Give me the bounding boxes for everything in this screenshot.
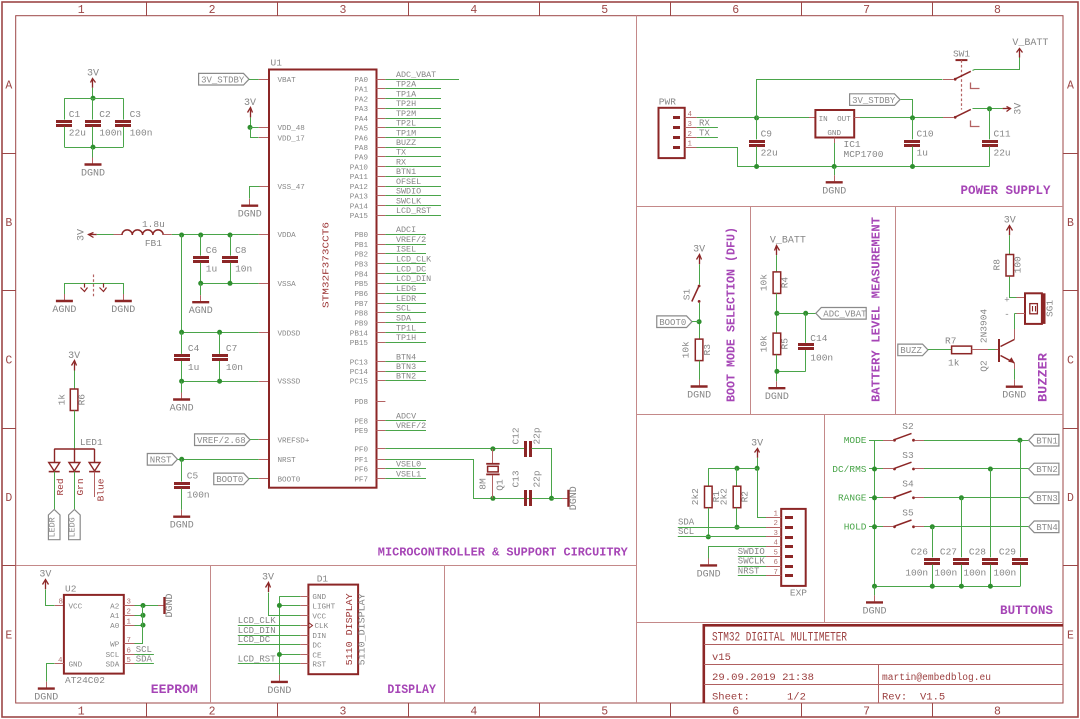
wire NRST to pin <box>178 459 259 461</box>
wire GND row (display) <box>279 596 300 598</box>
svg-text:POWER SUPPLY: POWER SUPPLY <box>961 184 1051 198</box>
ground DGND (net tie right) <box>123 294 125 300</box>
wire net ADC_VBAT <box>385 79 459 81</box>
svg-text:C14: C14 <box>810 333 827 344</box>
svg-text:VCC: VCC <box>69 603 83 611</box>
svg-text:3V: 3V <box>751 438 763 449</box>
node NRST/C5 <box>179 457 184 462</box>
wire C12 to right branch <box>532 449 552 499</box>
svg-text:100n: 100n <box>934 568 957 579</box>
wire net TP2H <box>385 108 441 110</box>
capacitor C4 <box>174 354 190 357</box>
svg-text:C11: C11 <box>994 128 1011 139</box>
svg-text:SCL: SCL <box>396 304 411 314</box>
svg-text:C6: C6 <box>206 245 218 256</box>
ground DGND (boot) <box>699 380 701 386</box>
wire R7 to Q2 base <box>972 349 988 351</box>
wire net BTN1 <box>385 176 441 178</box>
svg-text:1: 1 <box>688 141 693 149</box>
svg-text:CLK: CLK <box>315 623 329 631</box>
svg-text:C: C <box>5 354 12 367</box>
svg-text:10k: 10k <box>758 274 769 291</box>
svg-text:TP2H: TP2H <box>396 99 416 109</box>
svg-text:BTN1: BTN1 <box>1036 436 1058 446</box>
pin U2 GND stub <box>55 663 64 665</box>
svg-text:VSEL0: VSEL0 <box>396 460 421 470</box>
node R2/SDA <box>735 525 740 530</box>
wire 3V to VCC <box>46 590 55 606</box>
svg-text:ADCI: ADCI <box>396 225 416 235</box>
svg-text:DC: DC <box>312 642 322 650</box>
svg-text:A0: A0 <box>110 623 120 631</box>
svg-text:Q2: Q2 <box>978 360 989 372</box>
svg-text:SDA: SDA <box>396 313 412 323</box>
ground DGND (display) <box>279 675 281 681</box>
node pullup bus mid <box>735 466 740 471</box>
svg-text:PA13: PA13 <box>350 194 369 202</box>
wire net BTN2 <box>385 380 426 382</box>
node BOOT0 <box>697 319 702 324</box>
svg-text:3: 3 <box>127 599 131 607</box>
svg-text:29.09.2019 21:38: 29.09.2019 21:38 <box>712 672 814 684</box>
wire net TP2L <box>385 127 441 129</box>
svg-text:100: 100 <box>1013 256 1024 273</box>
svg-text:SCL: SCL <box>136 645 152 655</box>
svg-text:2: 2 <box>688 131 692 139</box>
node VSSSD B <box>217 379 222 384</box>
wire net SWDIO <box>385 195 441 197</box>
svg-text:SCL: SCL <box>106 652 120 660</box>
svg-text:A1: A1 <box>110 613 120 621</box>
wire net ADCV <box>385 420 426 422</box>
regulator IC1 MCP1700 <box>815 110 854 138</box>
node rail GND <box>832 164 837 169</box>
svg-text:A: A <box>1067 79 1074 92</box>
svg-text:1: 1 <box>774 510 779 518</box>
wire NRST row <box>738 575 766 577</box>
ground DGND (buzzer) <box>1014 380 1016 386</box>
svg-text:PB1: PB1 <box>354 242 368 250</box>
svg-text:BOOT0: BOOT0 <box>216 475 243 485</box>
svg-text:3: 3 <box>339 706 346 719</box>
node BTN3 tap <box>959 495 964 500</box>
wire R6 to LED1 <box>74 411 76 450</box>
svg-text:D: D <box>1067 492 1074 505</box>
svg-text:5: 5 <box>774 549 778 557</box>
svg-text:PB4: PB4 <box>354 271 368 279</box>
svg-text:GND: GND <box>69 662 83 670</box>
svg-text:AGND: AGND <box>189 306 213 317</box>
frame column ticks <box>146 2 148 16</box>
svg-text:8: 8 <box>994 706 1001 719</box>
svg-text:SWCLK: SWCLK <box>396 196 422 206</box>
svg-text:S3: S3 <box>902 450 914 461</box>
svg-text:IN: IN <box>819 116 828 124</box>
svg-text:PF1: PF1 <box>354 457 368 465</box>
svg-text:DGND: DGND <box>170 521 194 532</box>
wire R5 bottom to ground node <box>776 355 778 382</box>
wire PF1 to crystal bottom <box>381 460 552 499</box>
switch S2 <box>883 440 893 442</box>
section divider display right <box>444 566 446 704</box>
svg-text:PA14: PA14 <box>350 203 369 211</box>
svg-text:ISEL: ISEL <box>396 245 416 255</box>
svg-text:S5: S5 <box>902 508 914 519</box>
op-amp U2 AT24C02 body <box>64 595 124 674</box>
wire C1 top lead <box>64 98 66 119</box>
wire C6 top lead <box>200 235 202 256</box>
node BTN1 tap <box>1017 438 1022 443</box>
svg-text:PD8: PD8 <box>354 399 368 407</box>
wire A1 row <box>135 615 144 617</box>
node bus top <box>91 96 96 101</box>
capacitor C26 <box>924 558 940 561</box>
wire C9 top lead <box>756 118 758 139</box>
svg-text:TX: TX <box>699 128 710 138</box>
svg-text:PA3: PA3 <box>354 106 368 114</box>
svg-text:LCD_DC: LCD_DC <box>396 264 426 274</box>
svg-text:2k2: 2k2 <box>690 488 701 505</box>
wire IC1 OUT to switch <box>854 117 860 119</box>
ground DGND power supply <box>834 175 836 181</box>
svg-text:OUT: OUT <box>837 116 851 124</box>
power V_BATT (battery divider) <box>776 247 778 255</box>
wire bottom cap bus <box>64 147 123 149</box>
wire SCL (eeprom) <box>135 654 154 656</box>
svg-text:Red: Red <box>55 478 66 495</box>
svg-text:PA8: PA8 <box>354 145 368 153</box>
svg-text:1: 1 <box>127 618 132 626</box>
svg-text:LED1: LED1 <box>80 437 103 448</box>
net tie dashed divider <box>93 275 95 297</box>
wire VDDSD row <box>182 332 259 334</box>
svg-text:C2: C2 <box>99 109 111 120</box>
node VDDA bus B <box>198 233 203 238</box>
svg-text:10k: 10k <box>681 341 692 358</box>
ground DGND (eeprom left) <box>46 682 48 688</box>
power 3V (boot) <box>699 256 701 264</box>
wire 3V to cap bus <box>92 88 94 98</box>
wire TX <box>697 137 718 139</box>
capacitor C14 <box>798 343 814 346</box>
node BTN4 tap <box>930 524 935 529</box>
wire C2 bottom lead <box>92 127 94 147</box>
node bus bottom <box>91 145 96 150</box>
wire rail to DGND <box>834 167 836 176</box>
node rail RANGE <box>872 495 877 500</box>
wire IC1 GND to rail <box>834 143 836 167</box>
ground AGND under C4 <box>181 393 183 399</box>
wire net VSEL1 <box>385 478 426 480</box>
svg-text:3V: 3V <box>77 229 88 241</box>
node VDDA bus A <box>179 233 184 238</box>
wire net LCD_CLK <box>385 263 426 265</box>
svg-text:MICROCONTROLLER & SUPPORT CIRC: MICROCONTROLLER & SUPPORT CIRCUITRY <box>378 547 628 560</box>
svg-text:PF0: PF0 <box>354 447 368 455</box>
svg-text:5: 5 <box>127 657 131 665</box>
svg-text:5110 DISPLAY: 5110 DISPLAY <box>344 593 355 665</box>
svg-text:GND: GND <box>827 130 841 138</box>
wire SCL row <box>678 536 766 538</box>
svg-text:2: 2 <box>127 609 131 617</box>
svg-text:-: - <box>1004 310 1009 320</box>
wire C11 bottom lead <box>989 147 991 167</box>
svg-text:BTN4: BTN4 <box>396 353 416 363</box>
section divider micro bottom <box>16 565 636 567</box>
svg-text:DGND: DGND <box>267 686 291 697</box>
wire RANGE row left <box>869 497 883 499</box>
section divider boot/battery <box>750 206 752 414</box>
svg-text:22p: 22p <box>532 427 543 444</box>
svg-text:E: E <box>5 629 12 642</box>
wire net RX <box>385 166 441 168</box>
wire pullup bus <box>708 468 757 470</box>
wire net LCD_DIN <box>385 283 426 285</box>
node rail HOLD <box>872 524 877 529</box>
wire R4 to node <box>776 293 778 333</box>
svg-text:6: 6 <box>774 559 778 567</box>
svg-text:S4: S4 <box>902 479 914 490</box>
svg-text:100n: 100n <box>130 128 153 139</box>
section divider boot row bottom <box>636 414 1063 416</box>
node VSSA B <box>228 281 233 286</box>
svg-text:DC/RMS: DC/RMS <box>832 464 867 475</box>
wire HOLD row left <box>869 526 883 528</box>
ground AGND (net tie left) <box>64 294 66 300</box>
wire R2 bottom to SDA row <box>736 508 738 528</box>
svg-text:AGND: AGND <box>52 305 76 316</box>
resistor R4 <box>773 272 781 294</box>
wire net BTN3 <box>385 371 426 373</box>
wire LED red cathode <box>54 472 56 510</box>
svg-text:BOOT MODE SELECTION (DFU): BOOT MODE SELECTION (DFU) <box>726 227 739 402</box>
svg-text:BTN2: BTN2 <box>1036 465 1058 475</box>
global label BOOT0 (boot section) <box>657 316 692 328</box>
global label BTN2 <box>1029 463 1059 475</box>
ground DGND under C5 <box>181 510 183 516</box>
wire VSSA row <box>201 283 259 285</box>
wire rail to DGND <box>874 586 876 595</box>
svg-text:VREFSD+: VREFSD+ <box>278 438 310 446</box>
svg-text:PE9: PE9 <box>354 428 368 436</box>
svg-text:BTN4: BTN4 <box>1036 523 1058 533</box>
svg-text:BUZZER: BUZZER <box>1037 352 1051 402</box>
svg-text:4: 4 <box>58 657 63 665</box>
ground DGND (battery) <box>776 381 778 387</box>
svg-text:C12: C12 <box>511 427 522 444</box>
power 3V output (rotated right) <box>1003 108 1011 110</box>
ground DGND (rotated) at crystal <box>562 498 568 500</box>
wire C5 top lead <box>181 459 183 481</box>
svg-text:100n: 100n <box>810 353 833 364</box>
power 3V (buzzer) <box>1009 227 1011 235</box>
svg-text:PB5: PB5 <box>354 281 368 289</box>
net tie arrow 1 <box>84 283 86 287</box>
wire C1 bottom lead <box>64 127 66 147</box>
wire PF0 to crystal <box>385 448 524 450</box>
resistor R5 <box>773 333 781 355</box>
resistor R3 <box>695 339 703 361</box>
svg-text:3V: 3V <box>1013 103 1024 115</box>
svg-text:RX: RX <box>396 157 406 167</box>
svg-text:SWCLK: SWCLK <box>738 557 766 567</box>
pin LED blue cathode stub <box>94 472 96 497</box>
wire net TP1A <box>385 98 441 100</box>
wire C27 column <box>961 498 963 558</box>
node ground (battery) <box>774 369 779 374</box>
svg-text:LEDG: LEDG <box>396 284 416 294</box>
svg-text:100n: 100n <box>187 490 210 501</box>
svg-text:22u: 22u <box>69 128 86 139</box>
power 3V (eeprom) <box>45 581 47 589</box>
wire Q2 emitter to ground <box>1014 363 1016 369</box>
svg-text:100n: 100n <box>905 568 928 579</box>
svg-text:DGND: DGND <box>687 391 711 402</box>
wire net TP2M <box>385 118 441 120</box>
wire 3V to R6 <box>74 371 76 390</box>
svg-text:+: + <box>1004 296 1009 306</box>
svg-text:C7: C7 <box>226 343 237 354</box>
svg-text:3: 3 <box>688 121 692 129</box>
wire 3V_STDBY tap <box>901 100 913 118</box>
svg-text:E: E <box>1067 629 1074 642</box>
wire net TP1H <box>385 342 426 344</box>
wire address bus vertical <box>142 606 144 644</box>
capacitor C6 <box>193 256 209 259</box>
svg-text:MCP1700: MCP1700 <box>844 149 884 160</box>
wire net VREF/2 <box>385 430 426 432</box>
power 3V (VDD) <box>250 109 252 117</box>
wire C14 bottom lead <box>805 350 807 371</box>
wire VSSSD row <box>182 381 259 383</box>
wire S5 to BTN4 <box>924 526 1029 528</box>
svg-text:PA1: PA1 <box>354 87 368 95</box>
svg-text:VREF/2: VREF/2 <box>396 421 426 431</box>
svg-text:DGND: DGND <box>569 486 580 510</box>
wire C7 top lead <box>219 332 221 354</box>
svg-text:VREF/2: VREF/2 <box>396 235 426 245</box>
wire R3 to ground <box>699 361 701 380</box>
wire C8 top lead <box>230 235 232 256</box>
svg-text:LCD_CLK: LCD_CLK <box>238 616 276 626</box>
svg-text:1u: 1u <box>188 362 199 373</box>
wire C26 bottom lead <box>932 565 934 587</box>
svg-text:Grn: Grn <box>75 478 86 495</box>
resistor R8 <box>1006 255 1014 277</box>
wire 3V to S1 <box>699 264 701 284</box>
svg-text:R6: R6 <box>77 394 88 406</box>
svg-text:VCC: VCC <box>312 613 326 621</box>
capacitor C7 <box>212 354 228 357</box>
global label LEDG (vertical) <box>69 510 81 540</box>
svg-text:SWDIO: SWDIO <box>738 547 765 557</box>
wire A2 row to DGND <box>135 605 159 607</box>
global label BTN4 <box>1029 521 1059 533</box>
switch S5 <box>883 526 893 528</box>
wire C28 bottom lead <box>990 565 992 587</box>
svg-text:VREF/2.68: VREF/2.68 <box>197 436 246 446</box>
wire net SDA <box>385 322 426 324</box>
svg-text:VSS_47: VSS_47 <box>278 184 305 192</box>
svg-text:8: 8 <box>59 599 63 607</box>
wire 3V to VCC (display) <box>269 593 301 616</box>
svg-text:MODE: MODE <box>844 435 867 446</box>
wire BOOT0 to pin <box>249 478 259 480</box>
svg-text:PB14: PB14 <box>350 330 369 338</box>
svg-text:R4: R4 <box>780 277 791 289</box>
svg-text:NRST: NRST <box>738 566 760 576</box>
global label BUZZ <box>898 344 928 356</box>
svg-text:PA15: PA15 <box>350 213 369 221</box>
svg-text:PA12: PA12 <box>350 184 369 192</box>
svg-text:GND: GND <box>312 594 326 602</box>
wire to VDD_17 <box>251 128 259 138</box>
node ground rail taps <box>872 584 877 589</box>
wire to VDD_48 <box>250 127 259 129</box>
wire R8 to buzzer + <box>1010 277 1017 298</box>
svg-text:LCD_RST: LCD_RST <box>396 206 431 216</box>
node VSSA A <box>198 281 203 286</box>
wire C26 column <box>932 527 934 558</box>
svg-text:DGND: DGND <box>34 693 58 704</box>
svg-text:LEDR: LEDR <box>396 294 416 304</box>
section divider battery/buzzer <box>895 206 897 414</box>
svg-text:PB3: PB3 <box>354 261 368 269</box>
svg-text:1: 1 <box>78 706 85 719</box>
wire net LCD_RST <box>385 215 441 217</box>
svg-text:DGND: DGND <box>111 305 135 316</box>
svg-text:3: 3 <box>339 4 346 17</box>
svg-text:7: 7 <box>863 4 870 17</box>
svg-text:SWDIO: SWDIO <box>396 187 421 197</box>
svg-text:NRST: NRST <box>278 457 297 465</box>
svg-text:STM32 DIGITAL MULTIMETER: STM32 DIGITAL MULTIMETER <box>712 631 847 645</box>
svg-text:V_BATT: V_BATT <box>770 236 806 247</box>
wire S3 to BTN2 <box>924 468 1029 470</box>
svg-text:BTN1: BTN1 <box>396 167 416 177</box>
svg-text:PB0: PB0 <box>354 232 368 240</box>
node VDDA bus C <box>228 233 233 238</box>
wire net BTN4 <box>385 361 426 363</box>
wire C29 column <box>1020 440 1022 557</box>
connector PWR <box>659 108 685 158</box>
svg-text:3V_STDBY: 3V_STDBY <box>201 75 245 85</box>
svg-text:SDA: SDA <box>106 662 120 670</box>
switch S4 <box>883 497 893 499</box>
wire 3V down to EXP pin1 <box>758 469 767 518</box>
svg-text:WP: WP <box>110 642 120 650</box>
svg-text:BUZZ: BUZZ <box>396 138 416 148</box>
svg-text:10n: 10n <box>226 362 243 373</box>
wire net SWCLK <box>385 205 441 207</box>
node C9 bottom <box>754 164 759 169</box>
capacitor C1 <box>56 120 72 123</box>
svg-text:10k: 10k <box>758 335 769 352</box>
svg-text:3V: 3V <box>244 98 256 109</box>
power V_BATT (power supply) <box>1019 49 1021 57</box>
wire ground bus (battery) <box>777 371 806 373</box>
svg-text:5: 5 <box>601 706 608 719</box>
svg-text:SW1: SW1 <box>953 49 970 60</box>
wire SDA (eeprom) <box>135 663 154 665</box>
svg-text:RX: RX <box>699 118 710 128</box>
global label ADC_VBAT (battery) <box>816 308 866 320</box>
svg-text:B: B <box>5 217 12 230</box>
wire SW1 to 3V out <box>973 108 1003 110</box>
title block border <box>703 624 1063 627</box>
wire node to ADC_VBAT label <box>777 313 816 315</box>
wire CE row <box>279 654 300 656</box>
